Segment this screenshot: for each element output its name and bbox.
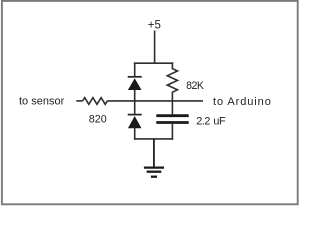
resistor 82K [167,62,177,101]
wire C bottom plate to bottom rail [171,124,173,140]
svg-text:to sensor: to sensor [19,96,65,108]
wire ground stem [153,139,155,167]
label 820 [89,113,107,125]
wire D2 anode to bottom rail [134,128,136,140]
wire middle rail to C top plate [171,100,173,114]
wire middle rail (R820 to Arduino tap) [107,100,203,102]
net +5 label [148,20,161,32]
wire +5 stem [154,31,156,64]
svg-text:+5: +5 [148,20,161,32]
wire top rail [134,62,173,64]
wire middle rail to D2 cathode [134,100,136,114]
diode lower (clamp to ground) [128,115,142,129]
resistor 820 [83,98,108,105]
capacitor 2.2 uF [156,116,188,123]
label 82K [186,80,204,92]
wire bottom rail [134,138,173,140]
svg-text:820: 820 [89,113,107,125]
svg-text:82K: 82K [186,80,204,92]
diode upper (clamp to +5) [128,77,142,90]
svg-text:to Arduino: to Arduino [213,96,272,108]
label to Arduino [213,96,272,108]
label to sensor [19,96,65,108]
wire top rail to D1 cathode [134,62,136,76]
wire D1 anode to middle rail [134,90,136,102]
svg-text:2.2 uF: 2.2 uF [196,115,226,127]
label 2.2 uF [196,115,226,127]
wire from sensor to R 820 [76,100,82,102]
ground [144,168,164,177]
